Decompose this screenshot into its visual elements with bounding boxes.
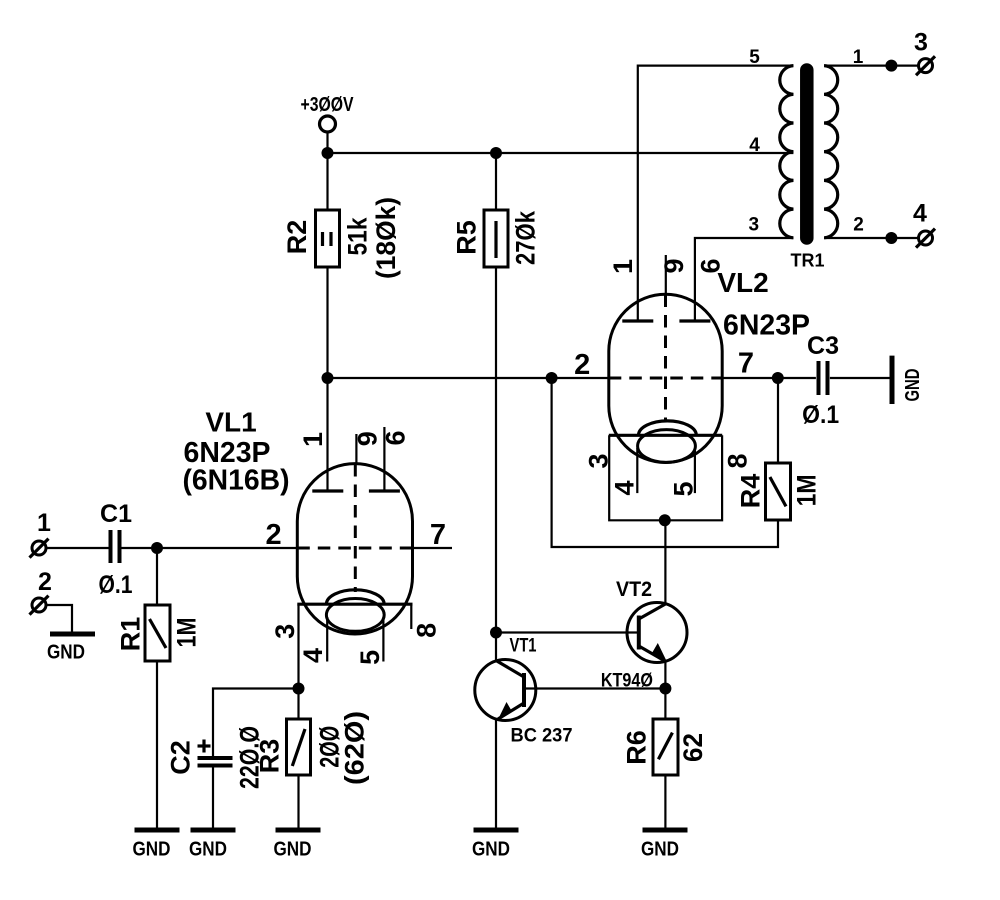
VL1 pin 5 lead <box>382 617 384 662</box>
svg-text:22Ø.Ø: 22Ø.Ø <box>234 726 264 789</box>
resistor R1 <box>116 605 202 661</box>
wire R4 top <box>777 378 779 463</box>
node R2 top <box>322 147 334 159</box>
wire node to C2 <box>213 689 299 757</box>
svg-text:R5: R5 <box>452 220 482 255</box>
svg-text:1M: 1M <box>172 618 202 648</box>
wire VL2 pin 9 stub <box>665 255 667 296</box>
svg-text:5: 5 <box>669 481 699 496</box>
svg-text:2: 2 <box>853 214 864 235</box>
svg-text:R2: R2 <box>282 220 312 255</box>
wire R5 top <box>495 153 497 210</box>
svg-text:6: 6 <box>696 258 726 273</box>
svg-text:VT1: VT1 <box>510 636 537 657</box>
VL2 grid dashed line <box>609 377 722 380</box>
resistor R6 <box>622 719 708 775</box>
ground R6 <box>641 830 688 861</box>
tube VL2 envelope <box>609 294 722 462</box>
wire VL1 pin 1 drop <box>326 378 328 491</box>
svg-text:51k: 51k <box>343 217 373 256</box>
capacitor C3 <box>802 332 839 429</box>
VL1 anode bar pin 6 <box>369 489 400 492</box>
wire R6 top <box>664 689 666 720</box>
VL1 anode bar pin 1 <box>312 489 343 492</box>
resistor R4 <box>736 463 822 520</box>
svg-text:2: 2 <box>38 568 52 596</box>
wire VL2 grid drop <box>552 378 778 547</box>
svg-text:C1: C1 <box>100 500 132 528</box>
wire VL1 anode to VL2 grid row <box>328 377 609 379</box>
svg-text:6N23P: 6N23P <box>723 310 810 342</box>
transformer TR1 <box>749 47 864 271</box>
wire VL1 pin 9 stub <box>355 434 357 465</box>
svg-text:9: 9 <box>659 258 689 273</box>
svg-text:R4: R4 <box>736 474 766 509</box>
svg-text:1: 1 <box>298 432 328 447</box>
wire R5 bottom to VT1 collector <box>495 267 497 661</box>
svg-text:7: 7 <box>430 519 446 551</box>
svg-text:GND: GND <box>189 839 227 861</box>
svg-text:BC 237: BC 237 <box>511 725 573 746</box>
svg-text:GND: GND <box>47 642 85 664</box>
tube VL1 envelope <box>297 464 412 634</box>
wire R1 top <box>156 548 158 605</box>
svg-text:KT94Ø: KT94Ø <box>601 670 653 691</box>
VL1 cathode dome arc <box>326 590 384 604</box>
svg-text:Ø.1: Ø.1 <box>802 401 839 429</box>
node VL2 cathode box <box>659 514 671 526</box>
svg-text:1: 1 <box>37 509 51 537</box>
VL2 cathode ellipse <box>638 430 696 463</box>
VL1 grid dashed line <box>297 547 412 550</box>
svg-text:(62Ø): (62Ø) <box>340 711 370 785</box>
ground R3 <box>274 830 321 861</box>
svg-text:1: 1 <box>608 259 638 274</box>
input terminal 1 <box>30 509 52 558</box>
svg-text:GND: GND <box>274 839 312 861</box>
wire R1 bottom to GND <box>156 661 158 830</box>
power terminal +300V <box>301 94 355 132</box>
svg-text:27Øk: 27Øk <box>511 210 541 265</box>
svg-text:Ø.1: Ø.1 <box>99 571 133 599</box>
svg-text:3: 3 <box>914 29 928 57</box>
ground C3 vertical <box>892 356 924 404</box>
svg-text:9: 9 <box>353 431 383 446</box>
svg-text:3: 3 <box>584 453 614 468</box>
svg-text:4: 4 <box>298 648 328 663</box>
node VL1 cathode <box>293 683 305 695</box>
svg-text:2: 2 <box>266 519 282 551</box>
svg-text:C2: C2 <box>166 740 196 775</box>
wire R3 bottom to GND <box>297 775 299 830</box>
wire TR1 secondary pin 2 to terminal <box>824 237 918 239</box>
svg-text:GND: GND <box>472 839 510 861</box>
VL1 pin 8 stub <box>410 604 412 629</box>
svg-text:+3ØØV: +3ØØV <box>301 94 355 116</box>
resistor R5 <box>452 210 541 267</box>
resistor R3 <box>254 711 369 785</box>
wire C2 bottom to GND <box>212 767 214 830</box>
node C1 R1 <box>151 542 163 554</box>
output terminal 4 <box>913 200 935 248</box>
transistor VT1 <box>475 636 573 747</box>
node VL2 grid <box>546 372 558 384</box>
wire C3 to ground bar <box>830 377 890 379</box>
wire VL1 pin 3 drop <box>297 604 299 719</box>
wire C1 to VL1 pin 2 <box>122 547 298 549</box>
svg-text:4: 4 <box>913 200 927 228</box>
svg-text:TR1: TR1 <box>790 251 824 271</box>
svg-text:4: 4 <box>609 480 639 495</box>
VL2 pin 5 lead <box>694 448 696 493</box>
wire VT1 emitter to GND <box>495 720 497 831</box>
svg-text:62: 62 <box>678 733 708 762</box>
resistor R2 <box>282 197 401 279</box>
wire VT2 base link <box>496 631 640 633</box>
wire input 2 to GND <box>46 605 73 632</box>
ground VT1 <box>472 830 519 861</box>
ground C2 <box>189 830 236 861</box>
node TR1 out 2 <box>885 232 897 244</box>
wire VL1 pin 6 stub <box>383 427 385 491</box>
node VT2 emitter <box>659 683 671 695</box>
svg-text:5: 5 <box>355 650 385 665</box>
svg-text:R1: R1 <box>116 617 146 652</box>
wire VL2 cathode box <box>609 435 722 520</box>
wire VL1 pin 7 stub <box>413 547 453 549</box>
node VL2 pin 7 <box>772 372 784 384</box>
VL1 center dashed line <box>354 464 357 592</box>
wire VL2 pin7 to node <box>722 377 816 379</box>
svg-text:2: 2 <box>574 349 590 381</box>
svg-text:VT2: VT2 <box>616 578 652 601</box>
VL2 center dashed line <box>664 295 667 422</box>
svg-text:(6N16B): (6N16B) <box>183 464 290 496</box>
wire VT2 emitter <box>664 661 666 689</box>
svg-text:GND: GND <box>641 839 679 861</box>
svg-text:1M: 1M <box>792 474 822 506</box>
node TR1 out 1 <box>885 60 897 72</box>
svg-text:GND: GND <box>133 839 171 861</box>
capacitor C2 polarized <box>166 726 265 789</box>
ground input <box>47 634 95 664</box>
svg-text:4: 4 <box>749 135 760 156</box>
wire R6 bottom to GND <box>664 775 666 830</box>
svg-text:8: 8 <box>411 623 441 638</box>
VL2 anode bar pin 6 <box>679 319 710 322</box>
output terminal 3 <box>914 29 935 76</box>
node VL1 anode <box>322 372 334 384</box>
svg-text:6: 6 <box>381 430 411 445</box>
node VT1 collector <box>490 627 502 639</box>
wire VT2 collector <box>664 520 666 604</box>
svg-text:5: 5 <box>749 47 760 68</box>
input terminal 2 <box>30 568 52 615</box>
svg-text:GND: GND <box>902 369 924 402</box>
svg-text:7: 7 <box>738 348 754 380</box>
capacitor C1 <box>99 500 133 599</box>
svg-text:1: 1 <box>853 47 864 68</box>
wire TR1 secondary pin 1 to terminal <box>824 64 918 66</box>
wire +300V stub <box>326 132 328 154</box>
VL2 base chord <box>609 434 722 437</box>
ground R1 <box>133 830 180 861</box>
VL1 base chord <box>297 603 412 606</box>
svg-text:C3: C3 <box>807 332 839 360</box>
svg-text:VL1: VL1 <box>205 407 256 438</box>
svg-text:3: 3 <box>270 624 300 639</box>
wire +300V rail <box>328 152 794 154</box>
svg-text:R6: R6 <box>622 730 652 765</box>
VL1 pin 4 lead <box>326 617 328 662</box>
VL2 anode bar pin 1 <box>622 319 653 322</box>
svg-text:(18Øk): (18Øk) <box>371 197 401 279</box>
wire input to C1 <box>46 547 109 549</box>
wire R2 bottom to grid row <box>326 267 328 378</box>
VL2 pin 4 lead <box>636 448 638 493</box>
wire TR1 pin 5 to VL2 pin 1 <box>638 66 794 321</box>
VL1 cathode ellipse <box>326 599 384 632</box>
wire TR1 pin 3 to VL2 pin 6 <box>695 238 794 321</box>
VL2 cathode dome arc <box>639 421 697 435</box>
svg-text:3: 3 <box>749 214 760 235</box>
transistor VT2 <box>601 578 687 691</box>
wire R2 top <box>326 153 328 210</box>
wire VT1 base to VT2 emitter node <box>526 687 666 689</box>
svg-text:8: 8 <box>722 453 752 468</box>
node R5 top <box>490 147 502 159</box>
